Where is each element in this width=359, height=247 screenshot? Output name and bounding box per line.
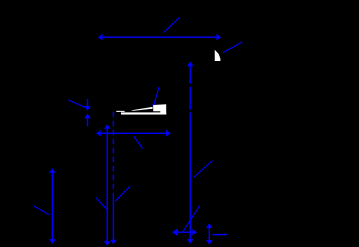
- arrowhead D1 right: [217, 34, 222, 41]
- hairline H1 (plate top surface sliver): [116, 111, 124, 112]
- leader L3 (onto ramp surface, with small arrow): [154, 87, 160, 106]
- dimension line V1: [106, 127, 108, 243]
- dimension line V0 (left vertical): [51, 171, 53, 241]
- ramp band W2 (thin wedge fill): [131, 107, 153, 111]
- leader L7 (to D4): [134, 136, 143, 148]
- tick on D5: [176, 229, 178, 236]
- dimension line D4 (bottom horizontal): [99, 132, 169, 134]
- leader L2 (from wedge A): [223, 42, 242, 53]
- arrowhead D1 left: [98, 34, 103, 41]
- extension line V2 (dashed vertical): [112, 112, 114, 196]
- wedge A (small white wedge, top right): [215, 50, 221, 61]
- dimension line V3 (long dashed vertical): [189, 65, 191, 240]
- dimension D6 (small vertical double arrow): [208, 226, 210, 242]
- dimension D5 (small horizontal double arrow): [175, 231, 195, 233]
- leader L1b (to gap dimension): [68, 100, 85, 107]
- leader L5 (to D5): [183, 206, 200, 232]
- leader L9 (to V1): [96, 198, 107, 210]
- dimension line D1 (top horizontal): [100, 36, 219, 38]
- gap dimension down-arrow: [87, 99, 89, 107]
- block W3 (right white block): [153, 104, 166, 114]
- leader L6 (to V0): [34, 206, 49, 215]
- leader L8 (to V2): [115, 186, 130, 201]
- leader tail of D6: [213, 234, 228, 236]
- gap dimension up-arrow: [87, 118, 89, 127]
- base strip (white plate): [121, 112, 166, 114]
- leader L4 (to V3): [194, 161, 213, 178]
- leader L1 (to D1 label): [164, 18, 180, 33]
